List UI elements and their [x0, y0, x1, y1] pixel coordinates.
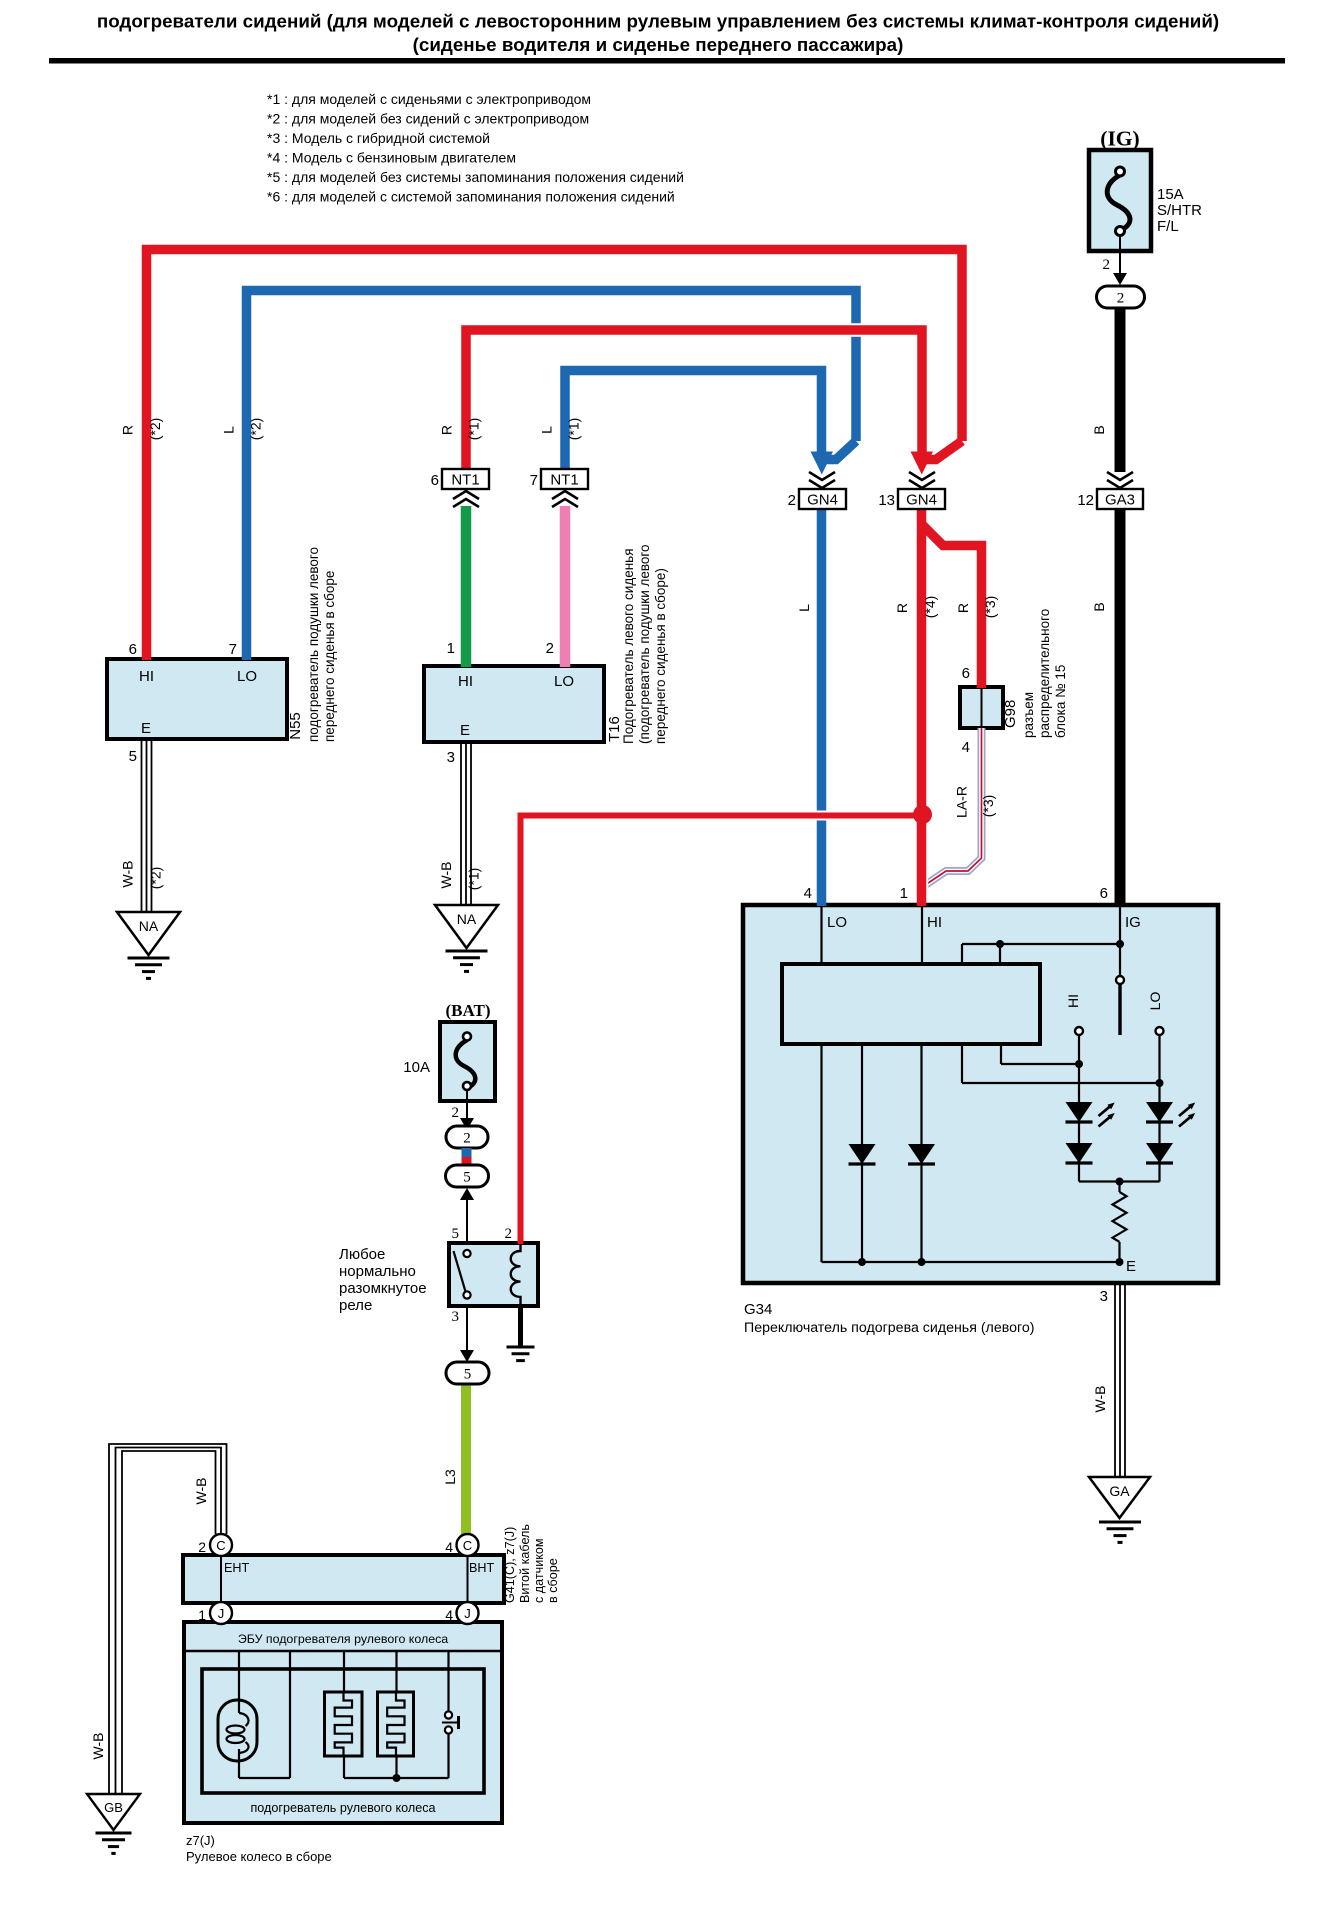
svg-text:HI: HI [458, 673, 473, 690]
svg-text:2: 2 [198, 1539, 206, 1555]
svg-text:J: J [218, 1606, 225, 1621]
ECU wire button feed [447, 1651, 449, 1711]
svg-text:разъем: разъем [1021, 692, 1036, 738]
arrow fuse to oval 2 [1119, 251, 1121, 277]
svg-text:Любое: Любое [339, 1246, 385, 1263]
svg-text:Переключатель подогрева сидень: Переключатель подогрева сиденья (левого) [744, 1320, 1034, 1336]
svg-text:13: 13 [878, 492, 895, 509]
svg-text:C: C [216, 1538, 225, 1553]
svg-text:(сиденье водителя и сиденье пе: (сиденье водителя и сиденье переднего па… [413, 34, 904, 55]
cable internal wires [220, 1556, 222, 1602]
svg-text:Подогреватель левого сиденья: Подогреватель левого сиденья [621, 549, 636, 745]
svg-text:C: C [463, 1538, 472, 1553]
wire L GN4 to G34 LO [815, 509, 829, 898]
svg-text:EHT: EHT [224, 1561, 249, 1575]
G34 LO contact [1156, 1027, 1164, 1035]
svg-text:Рулевое колесо в сборе: Рулевое колесо в сборе [186, 1849, 332, 1864]
svg-text:W-B: W-B [90, 1733, 106, 1760]
connector C left [210, 1534, 232, 1556]
svg-text:2: 2 [463, 1131, 471, 1147]
svg-text:W-B: W-B [438, 862, 454, 889]
svg-text:с датчиком: с датчиком [532, 1538, 546, 1603]
G34 IG wire to switch [1119, 907, 1121, 976]
svg-text:z7(J): z7(J) [186, 1833, 215, 1848]
svg-text:NT1: NT1 [451, 472, 479, 489]
svg-text:12: 12 [1077, 492, 1094, 509]
oval connector 5 mid [446, 1165, 489, 1187]
svg-text:W-B: W-B [1092, 1386, 1108, 1413]
svg-text:2: 2 [546, 640, 554, 657]
blue merge tip GN4 2 [811, 452, 834, 475]
connector GN4 pin 2 box [799, 489, 846, 509]
svg-text:5: 5 [129, 748, 137, 765]
wire W-B G34 ground [1114, 1283, 1116, 1477]
heater N55 box [107, 659, 287, 739]
svg-text:6: 6 [129, 641, 137, 658]
wire R GN4 to G34 HI [915, 509, 929, 898]
svg-text:распределительного: распределительного [1037, 609, 1052, 738]
oval connector 2 top [1097, 286, 1145, 308]
fuse 10A box [440, 1022, 495, 1101]
junction dot red [913, 805, 932, 824]
wire LA-R (*3) [926, 734, 982, 885]
svg-text:LO: LO [1147, 992, 1163, 1011]
chevron below NT1 6 [453, 491, 479, 499]
twisted cable G41 box [183, 1555, 504, 1603]
wire G below NT1 6 [459, 506, 474, 659]
svg-text:2: 2 [788, 492, 796, 509]
wire B fuse to GA3 [1113, 308, 1128, 472]
svg-text:(*4): (*4) [922, 596, 938, 619]
wire R (*2) outer red [147, 250, 963, 653]
ground GB [87, 1794, 140, 1830]
svg-text:W-B: W-B [120, 861, 136, 888]
G34 HI wire to block [921, 907, 923, 964]
relay coil [511, 1244, 521, 1306]
svg-text:LA-R: LA-R [954, 786, 970, 818]
svg-text:GA: GA [1109, 1483, 1130, 1499]
wire L (*2) outer blue [247, 291, 857, 653]
red merge tip GN4 13 [911, 452, 934, 475]
wire L3 green [459, 1384, 473, 1535]
svg-text:(*1): (*1) [566, 418, 582, 441]
svg-text:LO: LO [237, 668, 257, 685]
svg-text:2: 2 [1103, 257, 1111, 273]
wire W-B to GB [109, 1444, 227, 1794]
svg-text:*6 : для моделей с системой за: *6 : для моделей с системой запоминания … [267, 189, 675, 205]
svg-text:6: 6 [1100, 885, 1108, 902]
G34 LED common wire [1079, 1180, 1160, 1182]
bulb element [218, 1700, 257, 1761]
svg-text:(*1): (*1) [466, 868, 482, 891]
svg-text:переднего сиденья в сборе): переднего сиденья в сборе) [653, 568, 668, 744]
svg-text:L: L [221, 426, 237, 434]
svg-text:*5 : для моделей без системы з: *5 : для моделей без системы запоминания… [267, 169, 684, 185]
G34 diode column HI [920, 1044, 922, 1262]
arrow relay to oval 5 [466, 1306, 468, 1354]
G34 LO wire to block [820, 907, 822, 964]
svg-text:(подогреватель подушки левого: (подогреватель подушки левого [637, 544, 652, 744]
switch G34 inner block [782, 964, 1040, 1044]
svg-text:F/L: F/L [1157, 218, 1179, 235]
svg-text:R: R [894, 603, 910, 613]
svg-text:15A: 15A [1157, 186, 1184, 203]
svg-text:GA3: GA3 [1105, 492, 1135, 509]
svg-text:L3: L3 [442, 1469, 458, 1485]
PTC element 2 [378, 1692, 414, 1756]
svg-text:Витой кабель: Витой кабель [518, 1524, 532, 1603]
svg-text:10A: 10A [403, 1059, 430, 1076]
svg-text:подогреватель рулевого колеса: подогреватель рулевого колеса [250, 1801, 435, 1815]
svg-text:HI: HI [1065, 994, 1081, 1008]
relay coil ground wire [518, 1306, 523, 1346]
title rule [49, 58, 1285, 64]
G34 wire block to IG [962, 943, 1120, 945]
connector C right [457, 1534, 479, 1556]
svg-text:4: 4 [445, 1607, 453, 1623]
svg-text:(*3): (*3) [982, 596, 998, 619]
svg-text:разомкнутое: разомкнутое [339, 1280, 427, 1297]
wire P below NT1 7 [558, 506, 573, 659]
svg-text:6: 6 [962, 665, 970, 682]
svg-text:нормально: нормально [339, 1263, 416, 1280]
svg-text:4: 4 [445, 1539, 453, 1555]
ECU z7 box [184, 1622, 502, 1823]
svg-text:6: 6 [431, 472, 439, 489]
heater T16 box [424, 666, 604, 742]
svg-text:N55: N55 [287, 712, 304, 740]
svg-text:B: B [1091, 602, 1107, 611]
svg-text:W-B: W-B [193, 1478, 209, 1505]
svg-text:2: 2 [452, 1105, 460, 1121]
svg-text:1: 1 [447, 640, 455, 657]
svg-text:4: 4 [804, 885, 812, 902]
G34 LED HI pair [1078, 1102, 1080, 1182]
connector NT1 pin 7 box [541, 469, 588, 489]
svg-text:7: 7 [530, 472, 538, 489]
G34 switch lever [1116, 976, 1124, 984]
fuse 10A element [466, 1089, 468, 1101]
ECU wire PTC2 feed [395, 1651, 397, 1692]
ECU wire PTC1 feed [343, 1651, 345, 1692]
G34 resistor [1113, 1192, 1127, 1242]
svg-text:2: 2 [505, 1226, 513, 1242]
wire B GA3 to G34 [1113, 508, 1128, 898]
chevron above GN4 13 [909, 472, 935, 480]
svg-text:GN4: GN4 [807, 492, 838, 509]
svg-text:(*3): (*3) [980, 795, 996, 818]
wire stub blue [462, 1148, 472, 1157]
svg-text:7: 7 [229, 641, 237, 658]
svg-text:2: 2 [1117, 291, 1125, 307]
svg-text:реле: реле [339, 1297, 372, 1314]
svg-text:5: 5 [463, 1170, 471, 1186]
button element [445, 1711, 452, 1718]
svg-text:4: 4 [962, 739, 970, 756]
ECU bottom wire [344, 1777, 449, 1779]
wire R (*1) inner red [466, 330, 922, 470]
relay box [449, 1243, 538, 1306]
oval connector 2 mid [446, 1126, 488, 1148]
wire red merge diagonal [925, 441, 962, 460]
svg-text:LO: LO [554, 673, 574, 690]
svg-text:HI: HI [927, 914, 942, 931]
arrow up to oval 5 [466, 1196, 468, 1243]
svg-text:*4 : Модель с бензиновым двига: *4 : Модель с бензиновым двигателем [267, 150, 516, 166]
svg-text:G41(C), z7(J): G41(C), z7(J) [503, 1527, 517, 1603]
wire W-B N55 ground [141, 739, 143, 912]
svg-text:NT1: NT1 [550, 472, 578, 489]
svg-text:G34: G34 [744, 1301, 772, 1318]
svg-text:BHT: BHT [469, 1561, 494, 1575]
svg-text:NA: NA [457, 911, 477, 927]
connector NT1 pin 6 box [442, 469, 489, 489]
connector GA3 pin 12 box [1097, 489, 1143, 509]
ground relay coil [507, 1346, 535, 1349]
fuse 15A S/HTR F/L box [1089, 150, 1151, 251]
connector G98 box [960, 687, 1003, 728]
svg-text:GB: GB [104, 1800, 123, 1815]
fuse 15A element [1119, 234, 1121, 251]
svg-text:*1 : для моделей с сиденьями с: *1 : для моделей с сиденьями с электропр… [267, 91, 591, 107]
svg-text:1: 1 [198, 1607, 206, 1623]
svg-text:(*2): (*2) [248, 418, 264, 441]
connector GN4 pin 13 box [898, 489, 945, 509]
PTC element 1 [325, 1692, 363, 1756]
svg-text:1: 1 [900, 885, 908, 902]
svg-text:GN4: GN4 [906, 492, 937, 509]
ECU wire bulb return [289, 1651, 291, 1778]
relay switch [463, 1250, 470, 1257]
svg-text:5: 5 [464, 1367, 472, 1383]
svg-text:переднего сиденья в сборе: переднего сиденья в сборе [322, 571, 337, 742]
G34 LED LO pair [1158, 1102, 1160, 1182]
svg-text:E: E [141, 720, 151, 737]
wire blue merge diagonal [825, 441, 856, 460]
ground NA left [117, 912, 180, 955]
G34 diode column LO [861, 1044, 863, 1262]
chevron below NT1 7 [552, 491, 578, 499]
svg-text:R: R [955, 603, 971, 613]
oval connector 5 low [446, 1362, 489, 1384]
svg-text:в сборе: в сборе [546, 1558, 560, 1603]
svg-text:IG: IG [1125, 914, 1141, 931]
steering wheel heater inner box [202, 1669, 484, 1793]
svg-text:S/HTR: S/HTR [1157, 202, 1202, 219]
chevron above GA3 [1107, 472, 1133, 480]
svg-text:*3 : Модель с гибридной систем: *3 : Модель с гибридной системой [267, 130, 490, 146]
svg-text:R: R [439, 425, 455, 435]
svg-text:5: 5 [452, 1226, 460, 1242]
wire R relay feed [521, 816, 920, 1237]
arrow 10A to oval [466, 1102, 468, 1122]
svg-text:*2 : для моделей без сидений с: *2 : для моделей без сидений с электропр… [267, 111, 589, 127]
svg-text:B: B [1091, 425, 1107, 434]
wire L (*1) inner blue [565, 371, 822, 471]
connector J right [457, 1602, 479, 1624]
G34 wire block to HI [1001, 1063, 1079, 1065]
svg-text:(*2): (*2) [148, 867, 164, 890]
svg-text:L: L [539, 426, 555, 434]
svg-text:(*2): (*2) [147, 418, 163, 441]
wire R (*3) branch to G98 [922, 524, 982, 688]
svg-text:3: 3 [447, 749, 455, 766]
svg-text:3: 3 [452, 1309, 460, 1325]
connector J left [210, 1602, 232, 1624]
svg-text:(IG): (IG) [1100, 127, 1139, 151]
wire W-B T16 ground [460, 742, 462, 905]
svg-text:(*1): (*1) [466, 418, 482, 441]
chevron above GN4 2 [809, 472, 835, 480]
svg-text:3: 3 [1100, 1288, 1108, 1305]
svg-text:E: E [460, 722, 470, 739]
svg-text:подогреватели сидений (для мод: подогреватели сидений (для моделей с лев… [97, 11, 1219, 32]
G34 bottom E wire [820, 1044, 822, 1262]
svg-text:J: J [464, 1606, 471, 1621]
G34 wire block to LO [962, 1082, 1160, 1084]
svg-text:блока № 15: блока № 15 [1053, 665, 1068, 738]
svg-text:L: L [796, 604, 812, 612]
svg-text:подогреватель подушки левого: подогреватель подушки левого [306, 547, 321, 742]
ground GA [1089, 1477, 1150, 1518]
svg-text:G98: G98 [1002, 700, 1019, 728]
svg-text:LO: LO [827, 914, 847, 931]
svg-text:NA: NA [139, 918, 159, 934]
ECU wire bulb feed [238, 1651, 240, 1700]
G34 HI contact [1075, 1027, 1083, 1035]
svg-text:ЭБУ подогревателя рулевого кол: ЭБУ подогревателя рулевого колеса [238, 1632, 448, 1646]
svg-text:HI: HI [139, 668, 154, 685]
svg-text:R: R [120, 425, 136, 435]
switch G34 box [743, 905, 1218, 1283]
svg-text:E: E [1126, 1258, 1136, 1275]
ground NA right [435, 905, 498, 948]
wire stub red [462, 1157, 472, 1166]
svg-text:(BAT): (BAT) [445, 1001, 490, 1020]
